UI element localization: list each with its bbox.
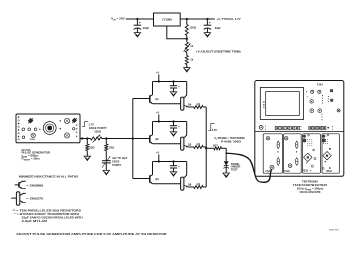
resistor R1 125Ω bbox=[185, 19, 188, 39]
capacitor C1 22uF bbox=[134, 19, 150, 33]
svg-text:1Ω: 1Ω bbox=[196, 182, 200, 186]
svg-text:TEST: TEST bbox=[231, 168, 238, 172]
ground bbox=[184, 68, 190, 72]
pulse generator HP-215A bbox=[16, 114, 80, 143]
label DIODE UNDER TEST bbox=[231, 162, 241, 172]
legend transistor 2N3866 bbox=[15, 181, 44, 189]
svg-text:22µF: 22µF bbox=[143, 26, 150, 30]
scope control knobs row 1 bbox=[306, 90, 333, 104]
label minimize inductance note bbox=[19, 175, 78, 179]
coax cable to scope bbox=[226, 153, 271, 182]
label 1Ω bbox=[196, 102, 200, 106]
svg-text:+V: +V bbox=[156, 71, 160, 75]
svg-text:VIN = 20V: VIN = 20V bbox=[111, 17, 125, 22]
svg-text:+V: +V bbox=[156, 111, 160, 115]
waveform 3.5V step bbox=[208, 124, 217, 133]
svg-text:7A29: 7A29 bbox=[284, 170, 290, 173]
label +V rail 2 bbox=[156, 111, 160, 115]
resistor 1Ω bbox=[188, 186, 206, 189]
svg-text:+V: +V bbox=[156, 151, 160, 155]
ground bbox=[134, 33, 140, 37]
svg-text:1Ω: 1Ω bbox=[196, 142, 200, 146]
ground bbox=[170, 132, 176, 136]
scope button row bbox=[259, 126, 333, 130]
wire input bbox=[126, 18, 154, 20]
capacitor C2 33uF bbox=[204, 19, 222, 33]
svg-text:MINIMIZE INDUCTANCE IN ALL PAT: MINIMIZE INDUCTANCE IN ALL PATHS bbox=[19, 175, 78, 179]
CRT screen bbox=[260, 88, 303, 120]
scope bay divider bbox=[255, 131, 344, 133]
ground bbox=[223, 173, 229, 177]
svg-text:Q4: Q4 bbox=[188, 103, 192, 107]
svg-text:7104: 7104 bbox=[317, 83, 323, 87]
wire +V stub 2 bbox=[158, 115, 160, 122]
node output B bbox=[206, 18, 208, 20]
wire +V rail 1 bbox=[153, 80, 187, 82]
transistor Q6 2N3375 bbox=[181, 162, 192, 191]
transistor Q3 2N3866 bbox=[133, 162, 159, 184]
transistor Q4 2N3375 bbox=[181, 82, 192, 111]
label 5Ω** bbox=[213, 144, 218, 147]
wire output bus bbox=[205, 107, 207, 187]
label 1Ω bbox=[196, 182, 200, 186]
node ADJ bbox=[186, 38, 188, 40]
ground bbox=[84, 156, 90, 160]
label +V TYPICAL 1.7V bbox=[217, 17, 241, 21]
label 50Ω bbox=[90, 145, 95, 149]
svg-text:2.2µF MYLAR: 2.2µF MYLAR bbox=[22, 219, 48, 223]
wire emitter bbox=[153, 143, 181, 145]
svg-text:7A29: 7A29 bbox=[265, 170, 271, 173]
node 50Ω tap bbox=[86, 137, 88, 139]
svg-text:7B10: 7B10 bbox=[326, 170, 332, 173]
svg-text:7B15: 7B15 bbox=[302, 170, 308, 173]
svg-text:Q6: Q6 bbox=[188, 183, 192, 187]
label 125Ω bbox=[190, 26, 197, 30]
wire +V rail 2 bbox=[153, 120, 187, 122]
resistor 1Ω bbox=[188, 106, 206, 109]
trimmer capacitor 2pF-12pF bbox=[102, 156, 111, 170]
svg-text:*: * bbox=[178, 85, 180, 89]
node output A bbox=[186, 18, 188, 20]
resistor R3 1k bbox=[185, 53, 188, 68]
svg-text:PURITY: PURITY bbox=[112, 164, 122, 167]
diode under test (Schottky) bbox=[223, 161, 229, 173]
label 7104 bbox=[317, 83, 323, 87]
svg-text:= 2N3866: = 2N3866 bbox=[26, 183, 44, 187]
ground bbox=[204, 33, 210, 37]
resistor 1Ω bbox=[188, 146, 206, 149]
svg-text:+: + bbox=[209, 21, 211, 25]
svg-text:5Ω**: 5Ω** bbox=[213, 144, 218, 147]
plug-in bay 7A29 #2 bbox=[284, 134, 302, 173]
svg-text:1Ω: 1Ω bbox=[196, 102, 200, 106]
svg-text:= 2N3375: = 2N3375 bbox=[26, 196, 44, 200]
svg-text:1k: 1k bbox=[190, 57, 193, 61]
node 62Ω tap bbox=[105, 137, 107, 139]
plug-in bay 7A29 #1 bbox=[263, 134, 282, 173]
label +V ADJUST bbox=[196, 49, 241, 53]
svg-text:+V ADJUST (RISETIME TRIM): +V ADJUST (RISETIME TRIM) bbox=[196, 49, 241, 53]
waveform 1.7V step bbox=[82, 122, 94, 127]
transistor Q5 2N3375 bbox=[181, 122, 192, 151]
svg-text:+V, TYPICAL 1.7V: +V, TYPICAL 1.7V bbox=[217, 17, 241, 21]
svg-text:Q5: Q5 bbox=[188, 143, 192, 147]
resistor 62Ω bbox=[105, 139, 108, 161]
wire ADJ bbox=[167, 26, 187, 39]
svg-text:P-6056, 500Ω: P-6056, 500Ω bbox=[221, 139, 242, 143]
transistor Q1 2N3866 bbox=[133, 82, 159, 104]
svg-text:*: * bbox=[178, 165, 180, 169]
svg-text:Q3: Q3 bbox=[155, 177, 159, 181]
wire to diode bbox=[225, 148, 227, 161]
svg-text:ADJUST PULSE GENERATOR AMPLITU: ADJUST PULSE GENERATOR AMPLITUDE FOR 5.0… bbox=[16, 232, 168, 236]
node input bbox=[136, 18, 138, 20]
legend transistor 2N3375 bbox=[11, 192, 44, 205]
label ** note bbox=[13, 209, 82, 213]
wire to bases bbox=[102, 138, 133, 140]
resistor 50Ω bbox=[86, 139, 89, 157]
label AN94 F08 bbox=[329, 229, 339, 232]
ground bbox=[103, 170, 109, 174]
ground bbox=[170, 172, 176, 176]
svg-text:215A: 215A bbox=[30, 138, 36, 141]
label adjust note bbox=[16, 232, 168, 236]
label +V rail 3 bbox=[156, 151, 160, 155]
capacitor bypass * (Q1 stage) bbox=[170, 82, 180, 92]
label HP-215A pulse generator bbox=[22, 148, 51, 161]
label 1Ω bbox=[196, 142, 200, 146]
potentiometer R2 1k riser trim bbox=[184, 39, 191, 53]
ground bbox=[170, 92, 176, 96]
svg-text:100Ω: 100Ω bbox=[94, 129, 102, 133]
wire pulse output bbox=[80, 137, 90, 139]
svg-text:3.5V: 3.5V bbox=[212, 128, 218, 132]
svg-text:62Ω: 62Ω bbox=[109, 145, 114, 149]
label scope caption bbox=[293, 180, 328, 194]
svg-text:50Ω: 50Ω bbox=[90, 145, 95, 149]
svg-text:Q2: Q2 bbox=[155, 137, 159, 141]
wire +V rail 3 bbox=[153, 160, 187, 162]
label 1k bbox=[190, 57, 193, 61]
wire output bbox=[180, 18, 215, 20]
svg-text:OSCILLOSCOPE: OSCILLOSCOPE bbox=[300, 190, 321, 194]
label +V rail 1 bbox=[156, 71, 160, 75]
wire emitter bbox=[153, 103, 181, 105]
plug-in bay 7B15 bbox=[302, 134, 320, 173]
capacitor bypass * (Q2 stage) bbox=[170, 122, 180, 132]
label EDGE PURITY 100Ω bbox=[89, 126, 107, 133]
svg-text:+: + bbox=[139, 21, 141, 25]
wire base bus bbox=[132, 99, 134, 179]
label 1k bbox=[190, 44, 193, 48]
svg-text:1k: 1k bbox=[190, 44, 193, 48]
svg-text:125Ω: 125Ω bbox=[190, 26, 197, 30]
resistor 5Ω** bbox=[206, 147, 226, 150]
transistor Q2 2N3866 bbox=[133, 122, 159, 144]
label * note bbox=[14, 212, 82, 223]
label 2pF TO 12pF EDGE PURITY bbox=[112, 157, 128, 167]
label Z0 probe bbox=[214, 136, 245, 143]
oscilloscope Tektronix 7104 bbox=[255, 81, 344, 177]
svg-text:*: * bbox=[178, 125, 180, 129]
regulator U1 LT1086 bbox=[154, 13, 181, 26]
svg-text:AN94 F08: AN94 F08 bbox=[329, 229, 339, 232]
scope control knobs row 3 bbox=[310, 109, 340, 121]
wire +V stub 3 bbox=[158, 155, 160, 162]
scope control knobs row 2 bbox=[307, 96, 333, 103]
label 62Ω bbox=[109, 145, 114, 149]
svg-text:33µF: 33µF bbox=[215, 26, 222, 30]
potentiometer edge purity 100Ω bbox=[90, 135, 102, 143]
plug-in bay 7B10 bbox=[322, 134, 339, 173]
label VIN = 20V bbox=[111, 17, 125, 22]
svg-text:Q1: Q1 bbox=[155, 97, 159, 101]
capacitor bypass * (Q3 stage) bbox=[170, 162, 180, 172]
svg-text:LT1086: LT1086 bbox=[162, 18, 172, 22]
wire +V stub 1 bbox=[158, 75, 160, 82]
wire emitter bbox=[153, 183, 181, 185]
